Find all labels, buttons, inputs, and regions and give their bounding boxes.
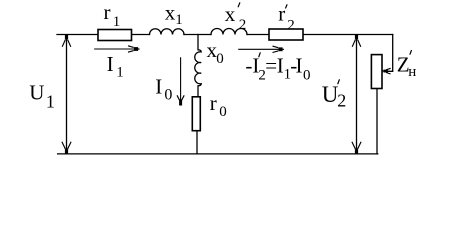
svg-text:0: 0: [164, 87, 172, 104]
svg-text:x: x: [165, 0, 176, 24]
svg-text:U: U: [29, 81, 44, 105]
svg-text:I: I: [296, 53, 303, 77]
svg-text:1: 1: [284, 67, 292, 83]
svg-text:-I: -I: [245, 53, 259, 77]
svg-text:1: 1: [175, 12, 183, 28]
svg-text:I: I: [107, 52, 114, 76]
svg-text:н: н: [408, 64, 416, 80]
svg-text:2: 2: [239, 17, 247, 33]
svg-text:0: 0: [219, 104, 227, 120]
svg-text:2: 2: [287, 18, 295, 34]
svg-text:1: 1: [46, 92, 55, 112]
svg-text:r: r: [104, 0, 111, 24]
svg-text:x: x: [225, 2, 236, 26]
svg-text:r: r: [210, 91, 217, 115]
svg-text:2: 2: [258, 68, 266, 84]
svg-text:2: 2: [337, 91, 346, 111]
svg-text:0: 0: [216, 51, 224, 67]
svg-text:I: I: [155, 74, 162, 98]
svg-text:1: 1: [113, 14, 121, 30]
svg-text:=: =: [265, 53, 277, 77]
svg-text:0: 0: [303, 68, 311, 84]
svg-text:r: r: [278, 2, 285, 26]
svg-text:1: 1: [116, 65, 124, 81]
